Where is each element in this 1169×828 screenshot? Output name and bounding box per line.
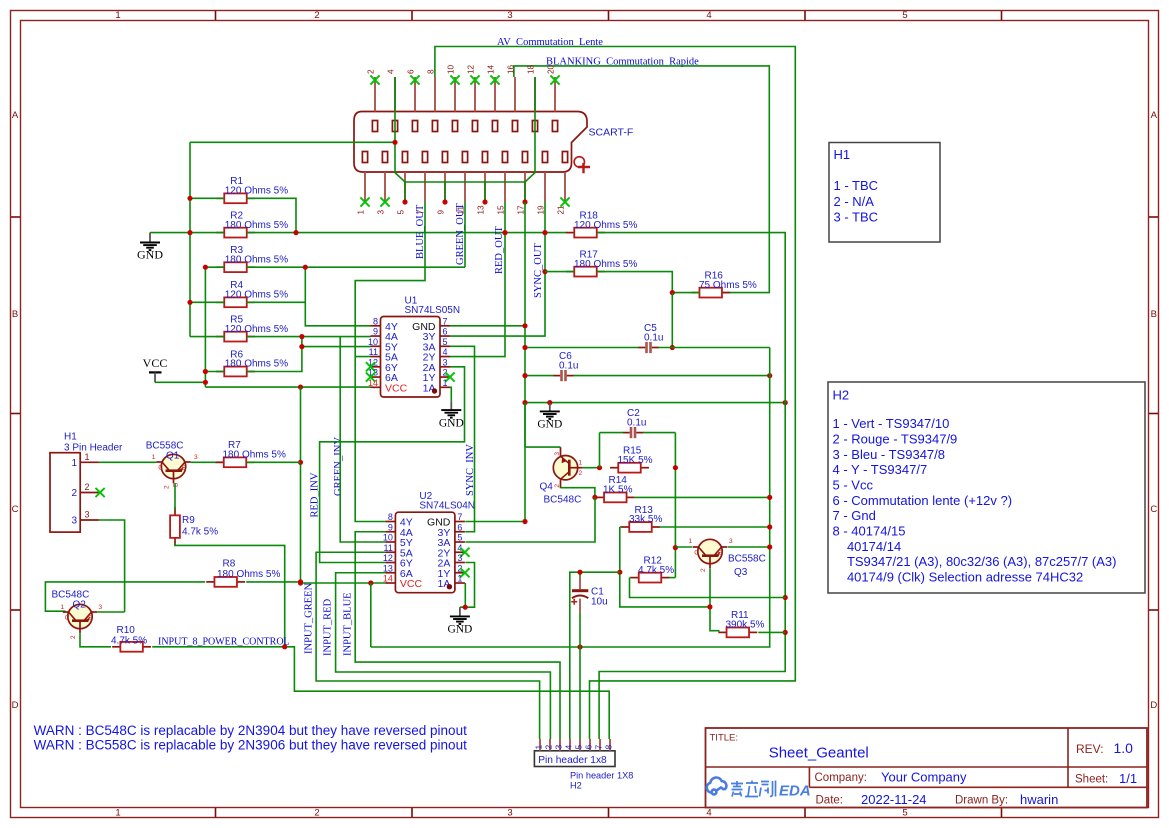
junction xyxy=(203,380,208,385)
junction U2 pin7 xyxy=(522,519,527,524)
svg-text:7 - Gnd: 7 - Gnd xyxy=(833,508,876,523)
transistor Q2 body xyxy=(68,604,92,628)
svg-text:2: 2 xyxy=(544,745,554,750)
svg-text:1: 1 xyxy=(534,745,544,750)
SCART pin 4 stub xyxy=(394,77,396,112)
svg-text:5: 5 xyxy=(902,808,907,819)
wire Q4 base to R15 xyxy=(583,467,600,469)
U1 pin 14 (VCC) xyxy=(371,386,381,388)
svg-text:EDA: EDA xyxy=(779,783,811,800)
IC U1 SN74LS05N body xyxy=(381,317,441,398)
SCART pin 21 stub xyxy=(564,172,566,202)
svg-text:6: 6 xyxy=(407,69,416,74)
svg-text:H2: H2 xyxy=(833,388,850,403)
SCART pin 17 slot xyxy=(522,152,527,163)
junction U1 pin7 xyxy=(522,323,527,328)
svg-text:4.7k 5%: 4.7k 5% xyxy=(182,527,218,538)
svg-text:9: 9 xyxy=(373,327,378,337)
wire VCC to bus B xyxy=(155,381,205,383)
svg-text:120 Ohms 5%: 120 Ohms 5% xyxy=(225,186,288,197)
svg-text:GND: GND xyxy=(537,419,562,431)
wire INPUT_BLUE U2.4A to pin3 xyxy=(355,532,560,739)
svg-text:1: 1 xyxy=(457,574,462,584)
no-connect X H1 pin 2 xyxy=(96,488,105,497)
wire GREEN_INV column xyxy=(340,337,385,542)
SCART pin 18 slot xyxy=(532,121,537,132)
capacitor C2 0.1u xyxy=(630,427,633,438)
SCART pin 19 slot xyxy=(542,152,547,163)
junction R16/R17 junction xyxy=(670,290,675,295)
svg-text:15: 15 xyxy=(497,205,506,215)
wire R5 left xyxy=(190,336,224,338)
svg-text:18: 18 xyxy=(527,64,536,74)
wire R13 left stub link xyxy=(620,526,621,528)
wire C1 top link xyxy=(579,572,581,577)
junction xyxy=(187,300,192,305)
junction pin4 column xyxy=(392,140,397,145)
svg-text:2: 2 xyxy=(71,488,77,499)
resistor R16 75 Ohms 5% xyxy=(691,292,699,294)
svg-text:2: 2 xyxy=(314,808,319,819)
U1 pin 7 (GND) xyxy=(440,325,450,327)
svg-text:D: D xyxy=(1150,700,1157,711)
svg-text:A: A xyxy=(1151,110,1158,121)
H2 pin 5 stub xyxy=(579,739,581,751)
junction xyxy=(293,230,298,235)
svg-text:180 Ohms 5%: 180 Ohms 5% xyxy=(225,359,288,370)
svg-text:Pin header 1X8: Pin header 1X8 xyxy=(570,771,633,781)
SCART pin 10 slot xyxy=(452,121,457,132)
svg-text:3: 3 xyxy=(457,553,462,563)
U2 pin 10 (5Y) xyxy=(385,541,395,543)
wire SCART gnd bus pins 4-18 xyxy=(395,77,535,182)
wire R6 right up xyxy=(247,347,302,372)
wire bus B xyxy=(204,267,206,387)
wire GND rail xyxy=(525,402,785,404)
svg-text:3: 3 xyxy=(729,538,733,545)
svg-text:WARN : BC558C is replacable by: WARN : BC558C is replacable by 2N3906 bu… xyxy=(34,738,467,753)
wire pin4 feeder xyxy=(570,572,620,739)
wire C6 left xyxy=(525,375,554,377)
svg-text:2: 2 xyxy=(85,482,90,492)
SCART pin 6 slot xyxy=(412,121,417,132)
SCART pin 17 stub xyxy=(524,172,526,202)
svg-text:10: 10 xyxy=(383,533,393,543)
note box H2 xyxy=(828,382,1145,593)
junction U2 gnd junction xyxy=(463,605,468,610)
svg-text:3: 3 xyxy=(85,510,90,520)
wire GND to bus A xyxy=(150,232,190,234)
svg-text:2 - N/A: 2 - N/A xyxy=(834,194,875,209)
junction Q3/bus770 xyxy=(767,544,772,549)
svg-text:15K 5%: 15K 5% xyxy=(618,455,653,466)
capacitor C6 0.1u xyxy=(560,370,563,381)
svg-text:7: 7 xyxy=(457,512,462,522)
no-connect X SCART pin 12 xyxy=(470,75,479,84)
svg-text:2: 2 xyxy=(70,635,77,639)
title block xyxy=(706,728,1148,808)
wire RED_INV column xyxy=(320,367,465,563)
svg-text:C: C xyxy=(158,465,163,472)
SCART pin 9 slot xyxy=(442,152,447,163)
wire VCC row to U1 pin14 xyxy=(205,386,370,388)
wire INPUT_RED U2.6A to pin2 xyxy=(336,573,551,739)
capacitor C5 0.1u xyxy=(645,342,648,353)
svg-text:H1: H1 xyxy=(64,432,77,443)
svg-text:1 - TBC: 1 - TBC xyxy=(834,178,879,193)
svg-text:5: 5 xyxy=(443,337,448,347)
SCART pin 9 stub xyxy=(444,172,446,202)
SCART pin 14 stub xyxy=(494,77,496,112)
svg-text:3: 3 xyxy=(99,604,103,611)
SCART pin 2 stub xyxy=(374,77,376,112)
wire R12 right up link xyxy=(669,577,675,579)
svg-text:3: 3 xyxy=(443,357,448,367)
SCART pin 13 slot xyxy=(482,152,487,163)
junction gnd drop xyxy=(482,199,487,204)
wire gnd bus drop xyxy=(524,182,526,202)
svg-text:3: 3 xyxy=(554,745,564,750)
svg-text:Q2: Q2 xyxy=(73,600,87,611)
wire Q4 top branch xyxy=(525,446,561,448)
svg-text:E: E xyxy=(88,615,93,622)
svg-text:120 Ohms 5%: 120 Ohms 5% xyxy=(225,324,288,335)
resistor R10 4.7k 5% xyxy=(112,646,120,648)
U1 pin 2 (1Y) xyxy=(440,376,450,378)
SCART pin 15 stub xyxy=(504,172,506,202)
junction gnd drop xyxy=(402,199,407,204)
junction VCC/U2 xyxy=(298,580,303,585)
svg-text:14: 14 xyxy=(487,64,496,74)
svg-text:6 - Commutation lente (+12v ?): 6 - Commutation lente (+12v ?) xyxy=(833,493,1013,508)
wire H1.3 to Q2 E xyxy=(99,520,125,612)
wire C1 bottom / header pin5 xyxy=(579,612,581,739)
no-connect X SCART pin 21 xyxy=(560,197,569,206)
svg-text:10u: 10u xyxy=(591,597,608,608)
junction xyxy=(298,385,303,390)
wire R8 right to VCC col xyxy=(246,581,300,583)
svg-text:TS9347/21 (A3), 80c32/36 (A3),: TS9347/21 (A3), 80c32/36 (A3), 87c257/7 … xyxy=(833,554,1117,569)
H2 pin 8 stub xyxy=(609,739,611,751)
SCART pin 3 slot xyxy=(382,152,387,163)
wire gnd col to Q4 xyxy=(524,403,526,448)
svg-text:12: 12 xyxy=(383,553,393,563)
wire R2 left xyxy=(190,232,224,234)
U2 pin 1 (1A) xyxy=(455,582,465,584)
svg-text:1: 1 xyxy=(115,10,120,21)
junction C5/gnd col xyxy=(522,345,527,350)
U2 pin 11 (5A) xyxy=(385,551,395,553)
wire U2 VCC row xyxy=(301,582,386,584)
junction R14 left xyxy=(592,495,597,500)
resistor R13 33k 5% xyxy=(621,526,629,528)
wire R3 left xyxy=(205,266,224,268)
junction C5 row xyxy=(670,345,675,350)
svg-text:8: 8 xyxy=(388,512,393,522)
U2 pin 3 (2A) xyxy=(455,562,465,564)
resistor R18 120 Ohms 5% xyxy=(566,232,574,234)
wire C5 left xyxy=(525,347,639,349)
svg-text:1: 1 xyxy=(71,458,77,469)
svg-text:4: 4 xyxy=(706,808,711,819)
svg-text:1: 1 xyxy=(443,378,448,388)
U2 pin 7 (GND) xyxy=(455,521,465,523)
SCART pin 3 stub xyxy=(384,172,386,202)
svg-text:4.7k 5%: 4.7k 5% xyxy=(638,565,674,576)
ground GND flag rail xyxy=(549,403,551,412)
no-connect X SCART pin 14 xyxy=(490,75,499,84)
svg-text:12: 12 xyxy=(467,64,476,74)
svg-text:120 Ohms 5%: 120 Ohms 5% xyxy=(574,220,637,231)
svg-text:2: 2 xyxy=(700,568,707,572)
SCART pin 4 slot xyxy=(392,121,397,132)
svg-text:180 Ohms 5%: 180 Ohms 5% xyxy=(225,220,288,231)
connector SCART-F body xyxy=(354,112,587,173)
svg-text:hwarin: hwarin xyxy=(1020,792,1058,807)
svg-text:INPUT_RED: INPUT_RED xyxy=(323,598,334,656)
svg-text:390k 5%: 390k 5% xyxy=(726,620,765,631)
U2 pin 5 (3A) xyxy=(455,541,465,543)
junction C6/gnd col xyxy=(522,373,527,378)
svg-text:R10: R10 xyxy=(117,625,136,636)
svg-text:1: 1 xyxy=(152,454,156,461)
SCART pin 1 stub xyxy=(364,172,366,202)
H1 pin 1 xyxy=(80,461,99,463)
svg-text:Sheet:: Sheet: xyxy=(1075,774,1108,786)
junction pin5/C1 junction xyxy=(577,644,582,649)
wire R18 right / bus 785 xyxy=(597,233,786,739)
svg-text:33k 5%: 33k 5% xyxy=(629,514,662,525)
svg-text:Company:: Company: xyxy=(815,772,867,784)
svg-text:GND: GND xyxy=(447,624,472,636)
no-connect X SCART pin 20 xyxy=(550,75,559,84)
svg-text:8: 8 xyxy=(373,316,378,326)
svg-text:Sheet_Geantel: Sheet_Geantel xyxy=(769,745,869,762)
svg-text:TITLE:: TITLE: xyxy=(710,733,739,744)
resistor R4 120 Ohms 5% xyxy=(216,301,224,303)
wire bus A xyxy=(189,142,191,336)
SCART pin 10 stub xyxy=(454,77,456,112)
svg-text:VCC: VCC xyxy=(400,578,423,590)
wire R17 left xyxy=(545,271,574,273)
junction RED_OUT/R2 xyxy=(502,230,507,235)
svg-text:13: 13 xyxy=(383,563,393,573)
svg-text:13: 13 xyxy=(477,205,486,215)
junction R8/VCC xyxy=(298,579,303,584)
junction VCC/R7 xyxy=(298,460,303,465)
resistor R1 120 Ohms 5% xyxy=(216,197,224,199)
SCART pin 8 stub xyxy=(434,77,436,112)
resistor R11 390k 5% xyxy=(718,631,726,633)
SCART pin 12 stub xyxy=(474,77,476,112)
svg-text:B: B xyxy=(12,309,18,320)
wire R3 to U1 4Y xyxy=(305,267,370,326)
svg-text:Pin header 1x8: Pin header 1x8 xyxy=(538,755,607,766)
svg-text:INPUT_GREEN: INPUT_GREEN xyxy=(304,582,315,654)
junction xyxy=(547,400,552,405)
svg-text:WARN : BC548C is replacable by: WARN : BC548C is replacable by 2N3904 bu… xyxy=(34,723,467,738)
wire C2 left drop xyxy=(599,433,601,468)
svg-text:C: C xyxy=(65,615,70,622)
svg-text:7: 7 xyxy=(443,316,448,326)
U2 pin 8 (4Y) xyxy=(385,521,395,523)
svg-text:BC548C: BC548C xyxy=(544,495,582,506)
wire R1 left xyxy=(190,197,224,199)
svg-text:3 - TBC: 3 - TBC xyxy=(834,210,879,225)
svg-text:1: 1 xyxy=(61,604,65,611)
svg-text:11: 11 xyxy=(384,543,393,553)
svg-text:SN74LS05N: SN74LS05N xyxy=(405,305,461,316)
svg-text:20: 20 xyxy=(547,64,556,74)
JLC EDA logo xyxy=(707,778,727,795)
wire bus 770 down to VCC feeder xyxy=(371,348,770,648)
resistor R15 15K 5% xyxy=(610,467,618,469)
capacitor C1 10u (polarized) xyxy=(572,589,588,592)
wire Q4 emitter to R14 xyxy=(561,488,595,498)
wire BLUE_OUT column xyxy=(355,202,425,522)
svg-text:5: 5 xyxy=(457,533,462,543)
no-connect X SCART pin 1 xyxy=(360,197,369,206)
wire U2 GND pin7 xyxy=(465,521,525,523)
junction xyxy=(187,230,192,235)
junction xyxy=(303,265,308,270)
wire gnd bus to left rail xyxy=(190,141,395,143)
svg-text:40174/14: 40174/14 xyxy=(833,539,902,554)
H2 pin 4 stub xyxy=(569,739,571,751)
U1 pin 6 (3Y) xyxy=(440,335,450,337)
svg-text:14: 14 xyxy=(368,378,378,388)
wire SYNC_OUT column xyxy=(450,202,545,336)
U2 pin 4 (2Y) xyxy=(455,551,465,553)
wire C5 right xyxy=(658,347,769,349)
svg-text:1: 1 xyxy=(115,808,120,819)
svg-text:BC558C: BC558C xyxy=(728,554,766,565)
SCART pin 11 slot xyxy=(462,152,467,163)
junction gnd drop xyxy=(442,199,447,204)
U1 pin 3 (2A) xyxy=(440,366,450,368)
svg-text:4: 4 xyxy=(564,745,574,750)
resistor R3 180 Ohms 5% xyxy=(216,266,224,268)
svg-text:6: 6 xyxy=(584,745,594,750)
no-connect X U2 pin 4 xyxy=(460,548,469,557)
svg-text:3 - Bleu - TS9347/8: 3 - Bleu - TS9347/8 xyxy=(833,447,946,462)
SCART pin 13 stub xyxy=(484,172,486,202)
svg-text:2 - Rouge - TS9347/9: 2 - Rouge - TS9347/9 xyxy=(833,431,958,446)
junction R13/pin4 feeder xyxy=(617,570,622,575)
svg-text:SYNC_OUT: SYNC_OUT xyxy=(533,243,544,298)
transistor Q1 body xyxy=(161,454,185,478)
connector H2 Pin header 1x8 body xyxy=(534,751,615,767)
wire GND column xyxy=(524,202,526,522)
svg-text:1K 5%: 1K 5% xyxy=(603,485,633,496)
U2 pin 13 (6A) xyxy=(385,572,395,574)
svg-text:Drawn By:: Drawn By: xyxy=(955,795,1008,807)
SCART female lock icon xyxy=(574,157,584,167)
SCART pin 7 slot xyxy=(422,152,427,163)
svg-text:4.7k 5%: 4.7k 5% xyxy=(111,636,147,647)
svg-text:E: E xyxy=(182,465,187,472)
svg-text:5: 5 xyxy=(397,210,406,215)
svg-text:C: C xyxy=(694,550,699,557)
SCART pin 19 stub xyxy=(544,172,546,202)
svg-text:2: 2 xyxy=(554,484,561,488)
U1 pin 13 (6A) xyxy=(371,376,381,378)
svg-text:GREEN_INV: GREEN_INV xyxy=(333,437,344,496)
SCART pin 5 stub xyxy=(404,172,406,202)
wire U2 2A to gnd xyxy=(460,563,475,608)
junction SYNC_OUT/R17 xyxy=(542,269,547,274)
SCART pin 11 stub xyxy=(464,172,466,202)
wire SYNC_INV column xyxy=(450,346,475,531)
wire R2 right long (RED_OUT row) xyxy=(247,232,567,234)
connector H1 3 Pin Header body xyxy=(50,453,80,532)
U1 pin 11 (5A) xyxy=(371,356,381,358)
junction R15 right xyxy=(673,465,678,470)
svg-text:Q4: Q4 xyxy=(540,482,554,493)
svg-text:0.1u: 0.1u xyxy=(559,361,578,372)
wire Q3 base wire xyxy=(675,546,692,548)
svg-text:C: C xyxy=(12,504,19,515)
svg-text:C: C xyxy=(1150,504,1157,515)
svg-text:5: 5 xyxy=(902,10,907,21)
wire gnd bus drop xyxy=(484,182,486,202)
junction xyxy=(203,369,208,374)
no-connect X U1 pin 2 xyxy=(445,372,454,381)
wire R13 column down xyxy=(620,527,710,607)
wire R9 to INPUT_8 row xyxy=(175,543,285,647)
wire R1 right to R2 net xyxy=(247,198,296,232)
svg-text:E: E xyxy=(718,550,723,557)
svg-text:SCART-F: SCART-F xyxy=(589,127,634,139)
svg-text:D: D xyxy=(12,700,19,711)
wire C6 right xyxy=(573,375,769,377)
no-connect X U2 pin 2 xyxy=(460,568,469,577)
SCART pin 1 slot xyxy=(362,152,367,163)
SCART pin 8 slot xyxy=(432,121,437,132)
svg-text:3: 3 xyxy=(507,10,512,21)
svg-text:Your Company: Your Company xyxy=(881,769,967,784)
no-connect X SCART pin 3 xyxy=(380,197,389,206)
svg-text:H2: H2 xyxy=(570,781,582,791)
U2 pin 12 (6Y) xyxy=(385,562,395,564)
svg-text:6: 6 xyxy=(443,327,448,337)
wire gnd bus drop xyxy=(444,182,446,202)
SCART pin 7 stub xyxy=(424,172,426,202)
svg-text:R8: R8 xyxy=(223,559,236,570)
wire INPUT_8 to header pin8 xyxy=(152,647,609,739)
svg-text:Q1: Q1 xyxy=(166,451,180,462)
SCART pin 16 stub xyxy=(514,77,516,112)
H1 pin 3 xyxy=(80,519,99,521)
svg-text:8 - 40174/15: 8 - 40174/15 xyxy=(833,524,906,539)
SCART pin 20 slot xyxy=(552,121,557,132)
U1 pin 5 (3A) xyxy=(440,345,450,347)
U2 pin 6 (3Y) xyxy=(455,531,465,533)
svg-text:GND: GND xyxy=(439,417,464,429)
resistor R5 120 Ohms 5% xyxy=(216,336,224,338)
SCART pin 18 stub xyxy=(534,77,536,112)
wire C2/R12/Q3 column xyxy=(674,433,676,578)
wire VCC column xyxy=(300,387,302,583)
U1 pin 1 (1A) xyxy=(440,386,450,388)
svg-text:VCC: VCC xyxy=(385,382,408,394)
svg-text:17: 17 xyxy=(517,205,526,215)
U1 pin 8 (4Y) xyxy=(371,325,381,327)
H1 pin 2 xyxy=(80,492,99,494)
SCART pin 12 slot xyxy=(472,121,477,132)
junction C6/bus770 xyxy=(767,373,772,378)
wire branch to U1 5Y xyxy=(302,337,371,347)
